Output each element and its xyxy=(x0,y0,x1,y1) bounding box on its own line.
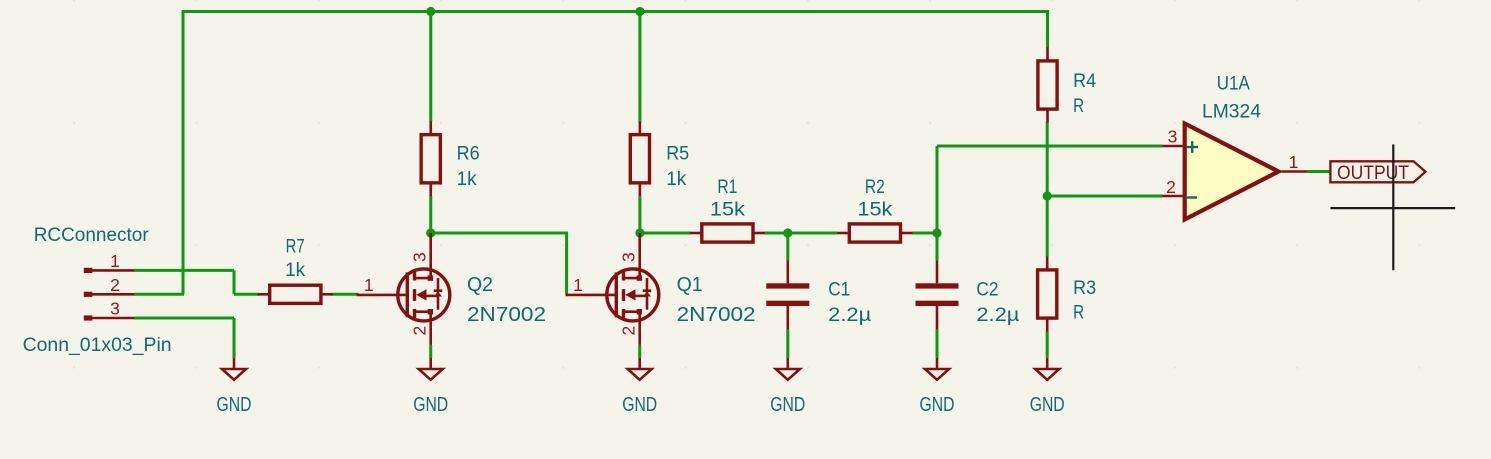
svg-text:R6: R6 xyxy=(457,144,480,165)
svg-text:1k: 1k xyxy=(457,169,477,190)
svg-text:15k: 15k xyxy=(857,199,893,220)
svg-text:GND: GND xyxy=(1030,393,1065,416)
svg-text:GND: GND xyxy=(920,393,955,416)
svg-text:1: 1 xyxy=(573,275,583,295)
svg-text:3: 3 xyxy=(1168,127,1178,147)
svg-text:2: 2 xyxy=(619,326,639,336)
svg-text:R1: R1 xyxy=(717,177,737,198)
svg-text:C1: C1 xyxy=(828,280,850,301)
svg-text:C2: C2 xyxy=(976,280,998,301)
svg-text:2: 2 xyxy=(110,275,120,295)
svg-text:R2: R2 xyxy=(865,177,885,198)
svg-text:1: 1 xyxy=(110,251,120,271)
svg-text:Q2: Q2 xyxy=(467,273,493,296)
svg-text:R5: R5 xyxy=(666,144,689,165)
svg-text:GND: GND xyxy=(770,393,805,416)
svg-text:R7: R7 xyxy=(286,236,305,257)
svg-text:1: 1 xyxy=(364,275,374,295)
svg-text:3: 3 xyxy=(619,252,639,262)
svg-text:2.2µ: 2.2µ xyxy=(976,305,1019,326)
svg-text:15k: 15k xyxy=(710,199,746,220)
svg-text:Q1: Q1 xyxy=(677,273,703,296)
svg-text:R: R xyxy=(1073,96,1084,117)
svg-text:R: R xyxy=(1073,303,1084,324)
svg-text:2: 2 xyxy=(1166,177,1176,197)
svg-text:2: 2 xyxy=(410,326,430,336)
svg-text:2N7002: 2N7002 xyxy=(467,303,546,326)
svg-text:LM324: LM324 xyxy=(1202,102,1261,123)
svg-text:3: 3 xyxy=(110,299,120,319)
svg-text:1: 1 xyxy=(1289,152,1299,172)
svg-text:GND: GND xyxy=(217,393,252,416)
svg-text:2N7002: 2N7002 xyxy=(677,303,756,326)
svg-text:OUTPUT: OUTPUT xyxy=(1337,163,1409,184)
svg-text:3: 3 xyxy=(410,252,430,262)
svg-text:Conn_01x03_Pin: Conn_01x03_Pin xyxy=(23,335,172,356)
svg-text:1k: 1k xyxy=(285,260,305,281)
svg-text:GND: GND xyxy=(622,393,657,416)
svg-text:2.2µ: 2.2µ xyxy=(828,305,871,326)
svg-text:GND: GND xyxy=(413,393,448,416)
svg-text:U1A: U1A xyxy=(1217,74,1250,95)
svg-text:RCConnector: RCConnector xyxy=(34,225,150,246)
svg-text:R3: R3 xyxy=(1073,278,1096,299)
svg-text:R4: R4 xyxy=(1073,71,1096,92)
svg-text:1k: 1k xyxy=(666,169,686,190)
